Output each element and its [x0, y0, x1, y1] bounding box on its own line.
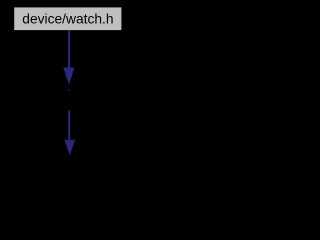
edge arrow 1 (device/watch.h -> hidden node): [63, 30, 74, 91]
svg-text:device/watch.h: device/watch.h: [22, 11, 113, 26]
node device/watch.h: [14, 7, 121, 30]
edge arrow 2 (hidden node -> hidden node): [64, 110, 75, 155]
